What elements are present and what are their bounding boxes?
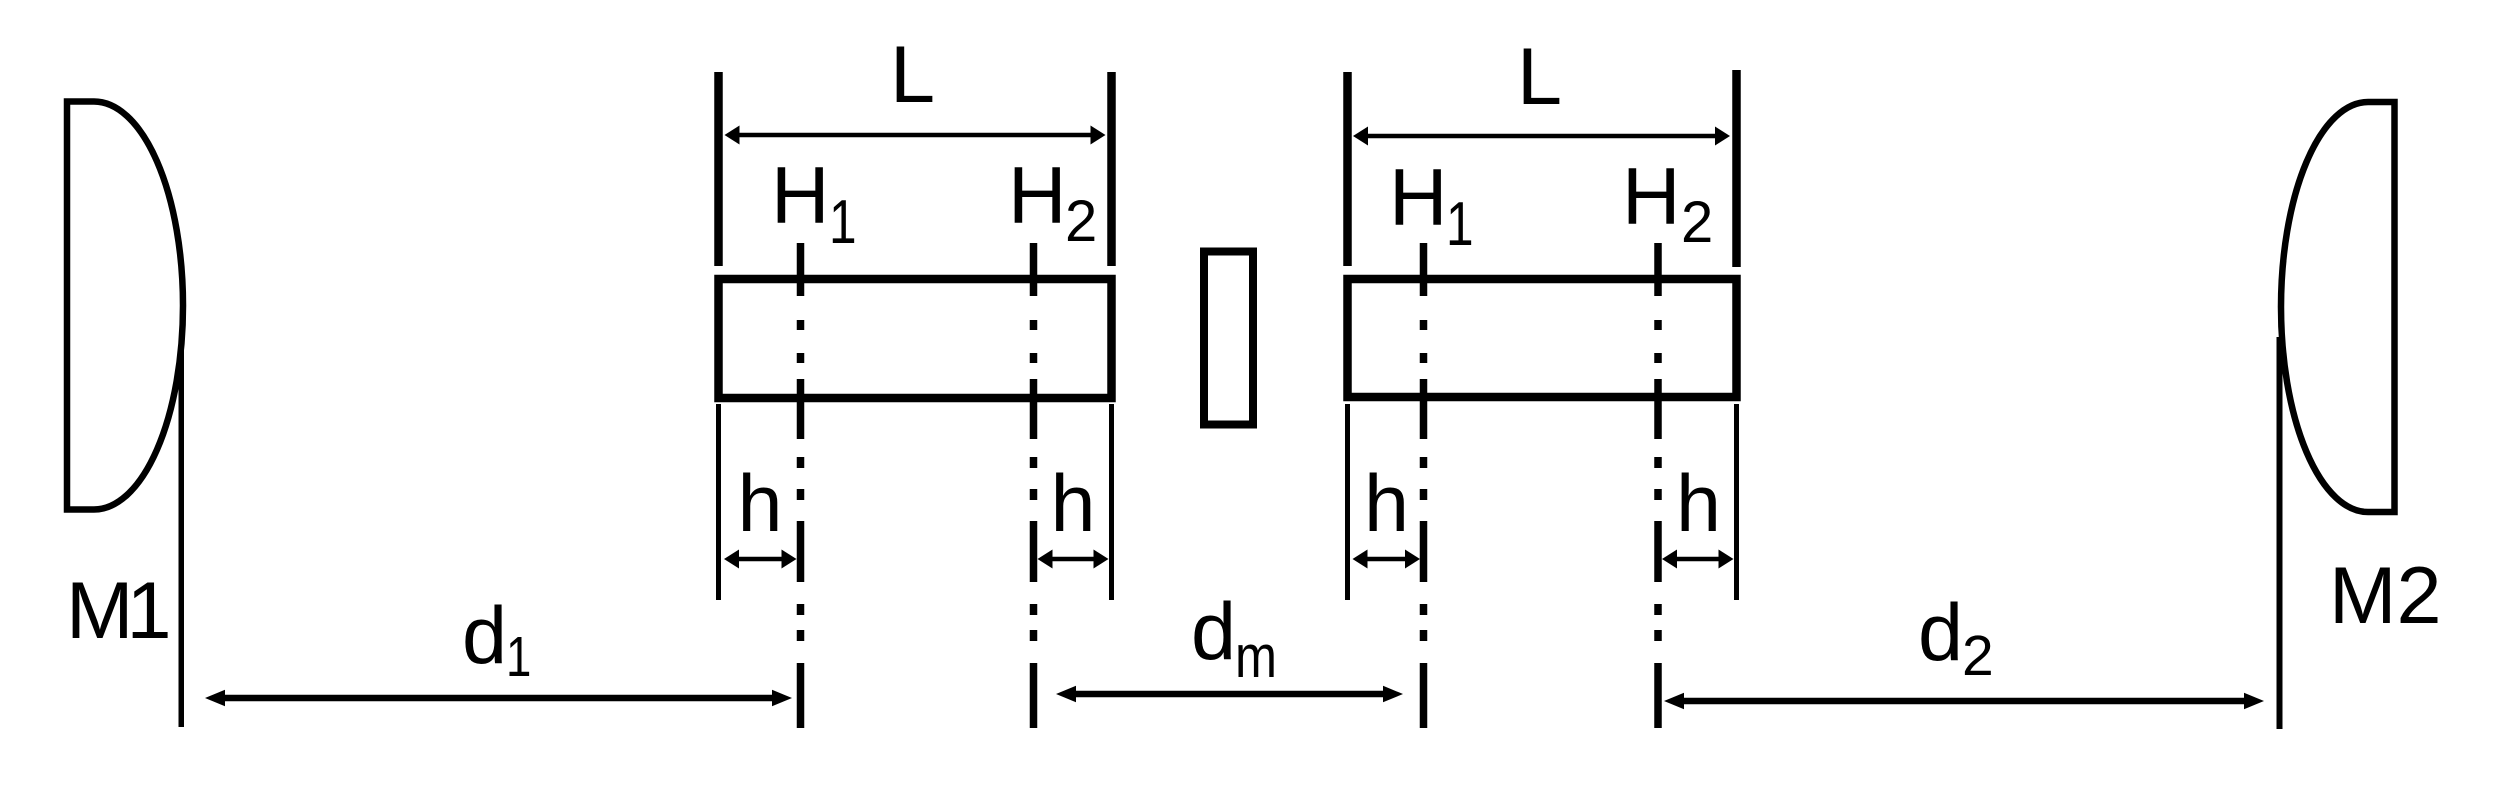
intracavity element (small rectangle) bbox=[1204, 252, 1253, 425]
block 2 left h arrow bbox=[1368, 557, 1406, 562]
svg-text:1: 1 bbox=[1446, 189, 1474, 259]
svg-text:d: d bbox=[462, 591, 507, 681]
block 1 left L tick bbox=[714, 72, 723, 266]
block 2 L dimension arrow bbox=[1368, 134, 1715, 139]
block 2 right h arrow bbox=[1677, 557, 1719, 562]
block 1 left h arrow bbox=[739, 557, 782, 562]
svg-text:m: m bbox=[1235, 623, 1277, 690]
svg-text:h: h bbox=[738, 459, 783, 549]
block 1 right L tick bbox=[1107, 72, 1116, 266]
dimension d1 arrow bbox=[225, 695, 772, 702]
svg-text:H: H bbox=[771, 151, 830, 241]
svg-text:H: H bbox=[1622, 152, 1681, 242]
block 1 right h tick bbox=[1109, 404, 1114, 600]
dimension dm arrow bbox=[1076, 691, 1383, 698]
svg-text:2: 2 bbox=[1681, 190, 1713, 255]
svg-text:H: H bbox=[1008, 151, 1067, 241]
block 2 principal plane H2 centerline bbox=[1657, 243, 1659, 728]
svg-text:H: H bbox=[1389, 153, 1448, 243]
block 2 right L tick bbox=[1732, 70, 1741, 267]
block 1 principal plane H1 centerline bbox=[800, 243, 802, 728]
mirror M1 reference line bbox=[179, 338, 185, 727]
block 1 left h tick bbox=[716, 404, 721, 600]
svg-text:2: 2 bbox=[1962, 624, 1994, 688]
mirror M2 reference line bbox=[2277, 337, 2283, 729]
svg-text:1: 1 bbox=[829, 187, 857, 257]
svg-text:h: h bbox=[1051, 459, 1096, 549]
block 1 principal plane H2 centerline bbox=[1033, 243, 1035, 728]
mirror M1 bbox=[67, 102, 183, 510]
svg-text:h: h bbox=[1676, 459, 1721, 549]
svg-text:1: 1 bbox=[506, 624, 531, 688]
svg-text:M1: M1 bbox=[66, 566, 168, 656]
dimension d2 arrow bbox=[1684, 698, 2244, 705]
block 1 L dimension arrow bbox=[740, 133, 1091, 138]
block 2 right h tick bbox=[1734, 404, 1739, 600]
svg-text:L: L bbox=[890, 30, 935, 120]
block 2 left h tick bbox=[1345, 404, 1350, 600]
block 2 left L tick bbox=[1343, 72, 1352, 266]
block 1 right h arrow bbox=[1053, 557, 1094, 562]
lens block 2 body bbox=[1348, 279, 1737, 397]
svg-text:M2: M2 bbox=[2329, 551, 2442, 641]
lens block 1 body bbox=[719, 279, 1112, 398]
mirror M2 bbox=[2281, 102, 2395, 512]
svg-text:d: d bbox=[1191, 587, 1236, 677]
svg-text:2: 2 bbox=[1065, 189, 1097, 254]
block 2 principal plane H1 centerline bbox=[1423, 243, 1425, 728]
svg-text:L: L bbox=[1517, 32, 1562, 122]
svg-text:h: h bbox=[1364, 459, 1409, 549]
svg-text:d: d bbox=[1918, 588, 1963, 678]
